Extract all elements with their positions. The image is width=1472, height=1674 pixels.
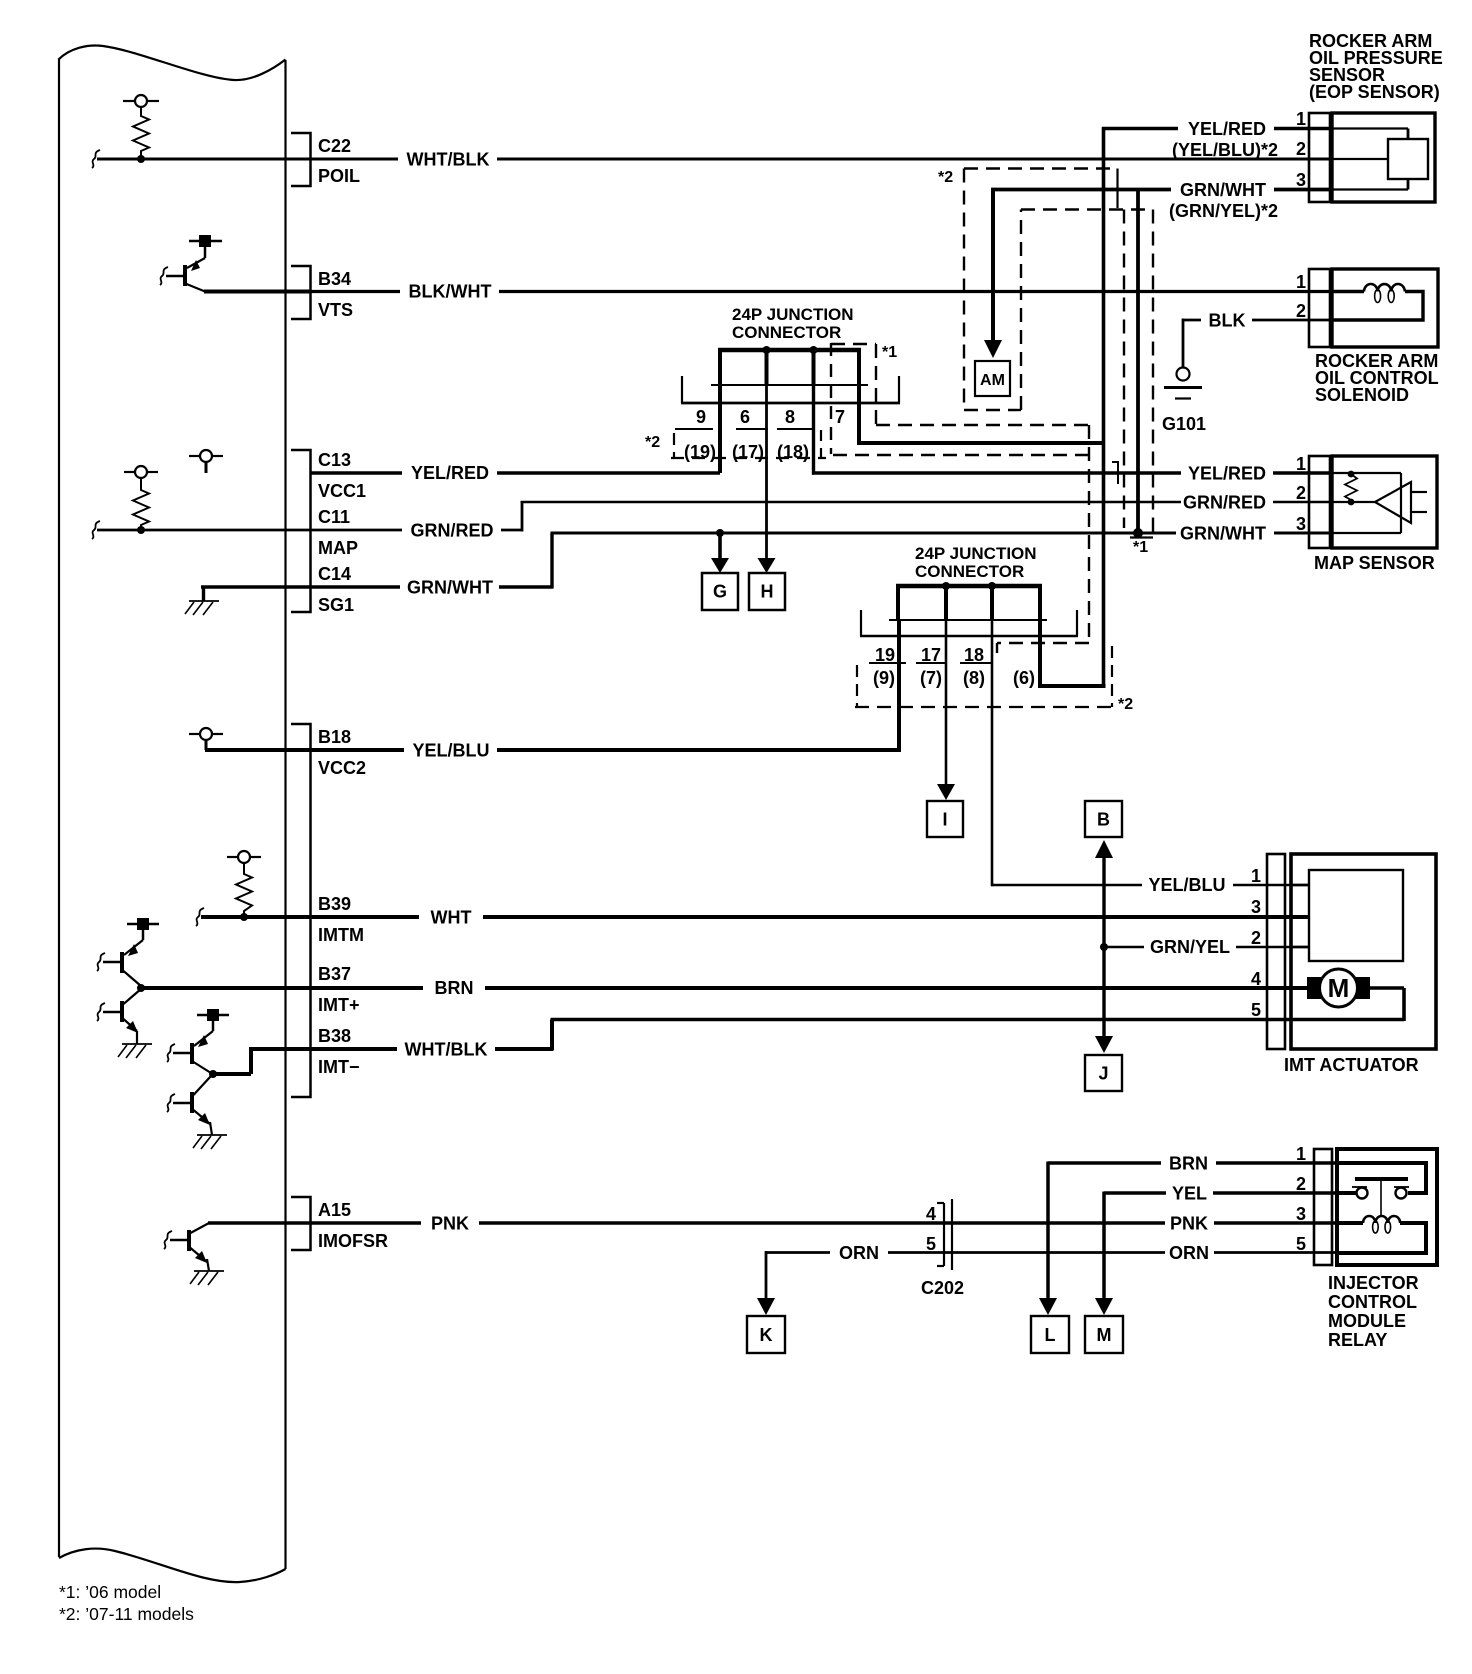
svg-text:MODULE: MODULE <box>1328 1311 1406 1331</box>
IMT actuator motor M <box>1307 969 1404 1021</box>
pin label B34/VTS <box>318 269 353 320</box>
wire PNK inside ECM <box>208 1221 311 1225</box>
wire GRN/YEL branch to IMT actuator pin 2 <box>1104 937 1309 957</box>
transistor Q upper (IMT+ high side) <box>103 940 143 986</box>
junction dot B38 node <box>209 1070 217 1078</box>
wire PNK A15 to injector relay pin 3 <box>311 1214 1337 1234</box>
svg-text:B34: B34 <box>318 269 351 289</box>
JC1 pin 9 lead <box>718 385 722 473</box>
JC2 pin numbers 19 17 18 <box>875 645 984 665</box>
JC1 output to YEL/RED vertical <box>857 386 1104 443</box>
supply terminal at B18 <box>189 728 223 750</box>
MAP sensor pin numbers <box>1296 454 1306 534</box>
connector box J <box>1085 1055 1122 1091</box>
ground for A15 transistor <box>190 1259 224 1285</box>
24P junction connector 2 title <box>915 544 1037 581</box>
JC1 pin numbers 9 6 8 7 <box>696 407 845 427</box>
svg-text:VCC2: VCC2 <box>318 758 366 778</box>
svg-text:A15: A15 <box>318 1200 351 1220</box>
junction dot JC1 bus pin 6 <box>763 346 771 354</box>
wire WHT/BLK C22 to EOP pin 2 <box>311 150 1332 170</box>
pin label B37/IMT+ <box>318 964 360 1015</box>
IMT actuator pin numbers <box>1251 866 1261 1020</box>
svg-text:YEL/RED: YEL/RED <box>411 463 489 483</box>
svg-text:BLK/WHT: BLK/WHT <box>409 282 492 302</box>
supply symbol for B38 driver <box>197 1009 229 1031</box>
junction dot G branch on GRN/WHT <box>716 529 724 537</box>
svg-text:(YEL/BLU)*2: (YEL/BLU)*2 <box>1172 140 1278 160</box>
svg-text:G: G <box>713 582 727 602</box>
arrow to connector H from junction pin 6 <box>758 385 776 573</box>
ECM/PCM block torn-strip outline <box>59 46 286 1583</box>
svg-text:2: 2 <box>1296 139 1306 159</box>
svg-text:*2: *2 <box>645 434 660 451</box>
IMT actuator connector bracket <box>1267 854 1285 1049</box>
footnotes <box>59 1582 194 1624</box>
svg-text:GRN/WHT: GRN/WHT <box>1180 524 1266 544</box>
JC2 *2 dashed frame <box>855 646 1112 707</box>
pin label A15/IMOFSR <box>318 1200 388 1251</box>
svg-text:*2: *2 <box>1118 696 1133 713</box>
junction dot C22 node <box>137 155 145 163</box>
svg-text:8: 8 <box>785 407 795 427</box>
wire GRN/RED C11 to MAP sensor pin 2 <box>311 493 1332 541</box>
svg-text:3: 3 <box>1296 514 1306 534</box>
wire BLK/WHT B34 to solenoid pin 1 <box>311 282 1332 302</box>
svg-text:2: 2 <box>1296 1174 1306 1194</box>
arrow to connector G <box>711 535 729 573</box>
transistor Q upper (IMT- high side) <box>173 1031 213 1073</box>
relay pin numbers <box>1296 1144 1306 1254</box>
pin label B18/VCC2 <box>318 727 366 778</box>
relay title <box>1328 1273 1419 1350</box>
svg-text:PNK: PNK <box>431 1214 469 1234</box>
svg-text:INJECTOR: INJECTOR <box>1328 1273 1419 1293</box>
svg-text:SG1: SG1 <box>318 595 354 615</box>
wire break squiggle B38 lower base <box>167 1094 175 1112</box>
wire WHT/BLK inside ECM <box>97 158 311 161</box>
svg-text:1: 1 <box>1296 272 1306 292</box>
svg-text:YEL/RED: YEL/RED <box>1188 464 1266 484</box>
svg-text:IMT+: IMT+ <box>318 995 360 1015</box>
svg-text:(9): (9) <box>873 668 895 688</box>
wire break squiggle B37 upper base <box>97 953 105 971</box>
solenoid connector bracket <box>1309 269 1330 347</box>
svg-text:24P JUNCTION: 24P JUNCTION <box>732 305 854 324</box>
wire GRN/WHT to EOP pin 3 with AM branch <box>991 188 1332 196</box>
arrow up to connector B <box>1095 840 1113 1053</box>
IMT actuator body <box>1291 854 1436 1049</box>
connector box M <box>1085 1316 1123 1353</box>
junction dot B37 node <box>137 984 145 992</box>
junction dot JC2 bus pin 18 <box>988 582 996 590</box>
svg-text:YEL/RED: YEL/RED <box>1188 119 1266 139</box>
arrow to connector I from junction pin 17 <box>937 620 955 800</box>
junction dot GRN/YEL tap on B-J line <box>1100 943 1108 951</box>
svg-text:1: 1 <box>1251 866 1261 886</box>
svg-text:2: 2 <box>1296 301 1306 321</box>
pin label B38/IMT- <box>318 1026 360 1077</box>
svg-text:MAP SENSOR: MAP SENSOR <box>1314 553 1435 573</box>
svg-text:L: L <box>1045 1325 1056 1345</box>
junction dot JC1 bus pin 8 <box>810 346 818 354</box>
svg-text:1: 1 <box>1296 109 1306 129</box>
pin label C13/VCC1 <box>318 450 366 501</box>
connector box G <box>702 573 738 610</box>
svg-text:ORN: ORN <box>1169 1243 1209 1263</box>
svg-text:B39: B39 <box>318 894 351 914</box>
connector bracket C22 <box>291 133 311 186</box>
svg-text:(EOP SENSOR): (EOP SENSOR) <box>1309 82 1440 102</box>
supply symbol for B34 driver <box>189 235 222 258</box>
JC1 *2 dashed frame <box>671 430 826 459</box>
connector box L <box>1031 1316 1069 1353</box>
pull-up resistor with supply terminal at C11 <box>124 466 158 530</box>
solenoid title <box>1315 351 1439 405</box>
EOP sensor title <box>1309 31 1443 102</box>
svg-text:C22: C22 <box>318 136 351 156</box>
EOP sensor connector bracket <box>1309 113 1330 202</box>
wire YEL relay pin 2 to connector M <box>1095 1184 1337 1316</box>
transistor Q lower (IMT- low side) <box>173 1076 211 1125</box>
svg-text:POIL: POIL <box>318 166 360 186</box>
JC1 alternate pin labels (19)(17)(18) <box>684 442 809 462</box>
pin label C11/MAP <box>318 507 358 558</box>
24P junction connector 2 body <box>860 586 1078 636</box>
svg-text:24P JUNCTION: 24P JUNCTION <box>915 544 1037 563</box>
relay connector bracket <box>1314 1149 1332 1265</box>
wire YEL/RED to MAP sensor pin 1 <box>812 464 1332 484</box>
svg-text:C14: C14 <box>318 564 351 584</box>
wire GRN/RED inside ECM <box>97 529 311 532</box>
svg-text:VCC1: VCC1 <box>318 481 366 501</box>
connector bracket B34 <box>291 266 311 319</box>
connector bracket A15 <box>291 1197 311 1250</box>
*1 marker under MAP junction <box>1130 538 1153 557</box>
ground G101 <box>1162 368 1206 435</box>
svg-text:PNK: PNK <box>1170 1214 1208 1234</box>
wire YEL/BLU inside ECM <box>205 748 311 752</box>
svg-text:6: 6 <box>740 407 750 427</box>
svg-text:H: H <box>761 582 774 602</box>
YEL/RED trunk vertical <box>1102 127 1332 686</box>
transistor Q lower (IMT+ low side) <box>103 989 141 1033</box>
rocker arm oil control solenoid body <box>1332 269 1438 347</box>
connector box K <box>747 1316 785 1353</box>
supply terminal at C13 <box>189 450 223 473</box>
svg-text:J: J <box>1098 1064 1108 1084</box>
wire WHT B39 to IMT actuator pin 3 <box>311 908 1309 928</box>
svg-text:BLK: BLK <box>1209 311 1246 331</box>
svg-text:AM: AM <box>980 372 1005 389</box>
svg-text:BRN: BRN <box>1169 1154 1208 1174</box>
MAP sensor connector bracket <box>1309 456 1330 548</box>
transistor Q (IMOFSR driver) <box>170 1223 209 1263</box>
wire break squiggle B34 base <box>160 267 168 285</box>
dashed *1 path JC1 pin 7 to JC2 pin 18 <box>831 344 1089 660</box>
svg-text:GRN/WHT: GRN/WHT <box>407 578 493 598</box>
svg-text:2: 2 <box>1296 483 1306 503</box>
svg-text:2: 2 <box>1251 928 1261 948</box>
svg-text:5: 5 <box>926 1234 936 1254</box>
JC1 pin number separators <box>675 428 812 430</box>
svg-text:*1: *1 <box>882 344 897 361</box>
svg-text:CONTROL: CONTROL <box>1328 1292 1417 1312</box>
wire WHT/BLK B38 to IMT actuator pin 5 (stepped up) <box>311 1020 1404 1060</box>
junction dot JC2 bus pin 17 <box>942 582 950 590</box>
dashed *2 path below JC1 <box>833 454 1089 456</box>
JC2 pin number separators <box>869 662 991 664</box>
svg-text:YEL: YEL <box>1172 1184 1207 1204</box>
svg-text:3: 3 <box>1296 1204 1306 1224</box>
in-line connector C202 <box>937 1199 952 1270</box>
svg-text:B: B <box>1097 810 1110 830</box>
svg-text:5: 5 <box>1251 1000 1261 1020</box>
wire break squiggle C11 <box>92 521 100 539</box>
svg-text:WHT: WHT <box>431 908 472 928</box>
solenoid pin numbers <box>1296 272 1306 321</box>
JC2 pin 18 lead to IMT YEL/BLU <box>992 620 994 885</box>
connector box H <box>749 573 785 610</box>
svg-text:WHT/BLK: WHT/BLK <box>405 1040 488 1060</box>
junction dot *1 vertical on GRN/WHT row <box>1133 528 1143 538</box>
svg-text:(6): (6) <box>1013 668 1035 688</box>
arrow to connector K <box>757 1251 775 1315</box>
24P junction connector 1 title <box>732 305 854 342</box>
svg-text:*1: *1 <box>1133 539 1148 556</box>
connector box I <box>927 801 963 837</box>
svg-text:9: 9 <box>696 407 706 427</box>
junction dot C11 node <box>137 526 145 534</box>
svg-text:CONNECTOR: CONNECTOR <box>915 562 1024 581</box>
pin label C22/POIL <box>318 136 360 186</box>
svg-text:*2: ’07-11 models: *2: ’07-11 models <box>59 1604 194 1624</box>
svg-text:BRN: BRN <box>435 978 474 998</box>
svg-text:VTS: VTS <box>318 300 353 320</box>
svg-text:I: I <box>942 810 947 830</box>
supply symbol for B37 driver <box>127 918 159 940</box>
wire BLK solenoid pin 2 to ground G101 <box>1183 311 1332 368</box>
pull-up resistor with supply terminal at B39 <box>227 851 261 917</box>
wire break squiggle A15 base <box>164 1231 172 1249</box>
wire YEL/RED C13 to junction connector pin 9 <box>311 463 720 483</box>
svg-text:(8): (8) <box>963 668 985 688</box>
svg-text:B37: B37 <box>318 964 351 984</box>
dashed *2 frame around AM branch <box>938 169 1118 411</box>
pin label C14/SG1 <box>318 564 354 615</box>
wire WHT inside ECM <box>201 915 311 919</box>
dashed *2 path toward EOP alternate wires <box>1021 210 1153 536</box>
svg-text:K: K <box>760 1325 773 1345</box>
svg-text:*2: *2 <box>938 169 953 186</box>
JC2 pin 19 lead <box>897 620 901 752</box>
svg-text:4: 4 <box>926 1204 936 1224</box>
svg-text:WHT/BLK: WHT/BLK <box>407 150 490 170</box>
svg-text:1: 1 <box>1296 1144 1306 1164</box>
wire BRN B37 to IMT actuator pin 4 <box>311 978 1308 998</box>
svg-text:1: 1 <box>1296 454 1306 474</box>
svg-text:C202: C202 <box>921 1278 964 1298</box>
ground at C14 (SG1) <box>185 587 219 615</box>
svg-text:GRN/RED: GRN/RED <box>410 521 493 541</box>
small alternate-pin tick near MAP <box>1112 462 1118 484</box>
JC1 pin 8 lead to MAP YEL/RED <box>812 385 816 473</box>
wire GRN/WHT inside ECM <box>201 585 311 588</box>
svg-text:*1: ’06 model: *1: ’06 model <box>59 1582 161 1602</box>
wire BRN relay pin 1 to connector L <box>1039 1154 1337 1316</box>
svg-text:C13: C13 <box>318 450 351 470</box>
svg-text:(7): (7) <box>920 668 942 688</box>
svg-text:(GRN/YEL)*2: (GRN/YEL)*2 <box>1169 201 1278 221</box>
svg-text:YEL/BLU: YEL/BLU <box>1148 875 1225 895</box>
svg-text:M: M <box>1097 1325 1112 1345</box>
wire break squiggle C22 <box>92 150 100 168</box>
wire break squiggle B38 upper base <box>167 1044 175 1062</box>
wire WHT/BLK inside ECM (stepped) <box>213 1049 311 1074</box>
JC1 pin 7 dashed lead <box>830 343 832 454</box>
svg-text:7: 7 <box>835 407 845 427</box>
injector control module relay body <box>1337 1149 1437 1265</box>
svg-text:3: 3 <box>1296 170 1306 190</box>
svg-text:CONNECTOR: CONNECTOR <box>732 323 841 342</box>
wire break squiggle B39 <box>196 908 204 926</box>
EOP sensor pin numbers <box>1296 109 1306 190</box>
junction dot B39 node <box>240 913 248 921</box>
wire ORN to relay pin 5 and connector K <box>766 1243 1337 1263</box>
svg-text:SOLENOID: SOLENOID <box>1315 385 1409 405</box>
svg-text:3: 3 <box>1251 897 1261 917</box>
*1 vertical GRN/WHT to MAP junction <box>1136 190 1140 534</box>
svg-text:B38: B38 <box>318 1026 351 1046</box>
pin label B39/IMTM <box>318 894 364 945</box>
svg-text:IMTM: IMTM <box>318 925 364 945</box>
svg-text:GRN/YEL: GRN/YEL <box>1150 937 1230 957</box>
svg-text:GRN/RED: GRN/RED <box>1183 493 1266 513</box>
arrow to connector AM <box>984 194 1002 358</box>
ground for B37 lower transistor <box>118 1031 152 1058</box>
wire GRN/WHT C14 to MAP sensor pin 3 <box>311 524 1332 598</box>
wire YEL/BLU B18 to junction connector 2 pin 19 <box>311 741 901 761</box>
wire break squiggle B37 lower base <box>97 1003 105 1021</box>
svg-text:YEL/BLU: YEL/BLU <box>412 741 489 761</box>
svg-text:IMOFSR: IMOFSR <box>318 1231 388 1251</box>
svg-text:RELAY: RELAY <box>1328 1330 1387 1350</box>
wire BRN inside ECM <box>140 986 311 990</box>
svg-text:GRN/WHT: GRN/WHT <box>1180 180 1266 200</box>
24P junction connector 1 body <box>681 350 900 403</box>
svg-text:G101: G101 <box>1162 414 1206 434</box>
svg-text:B18: B18 <box>318 727 351 747</box>
svg-text:MAP: MAP <box>318 538 358 558</box>
pull-up resistor with supply terminal at C22 <box>123 95 159 159</box>
svg-text:M: M <box>1328 973 1350 1003</box>
MAP sensor body <box>1332 456 1437 548</box>
connector box B <box>1085 801 1122 837</box>
svg-text:C11: C11 <box>318 507 350 527</box>
wire YEL/BLU to IMT actuator pin 1 <box>991 875 1309 895</box>
svg-text:5: 5 <box>1296 1234 1306 1254</box>
JC2 alternate pin labels (9)(7)(8)(6) <box>873 668 1035 688</box>
svg-text:ORN: ORN <box>839 1243 879 1263</box>
svg-text:4: 4 <box>1251 969 1261 989</box>
JC2 pin 6 riser to YEL/RED trunk <box>1038 620 1106 686</box>
svg-text:IMT ACTUATOR: IMT ACTUATOR <box>1284 1055 1419 1075</box>
connector bracket B18..B38 <box>291 724 311 1097</box>
svg-text:IMT−: IMT− <box>318 1057 360 1077</box>
EOP sensor body <box>1332 113 1435 202</box>
connector box AM <box>975 361 1010 396</box>
ground for B38 lower transistor <box>193 1122 227 1149</box>
connector bracket C13/C11/C14 <box>291 450 311 612</box>
transistor Q (VTS driver) <box>166 258 205 292</box>
wire BLK/WHT inside ECM <box>204 290 311 294</box>
